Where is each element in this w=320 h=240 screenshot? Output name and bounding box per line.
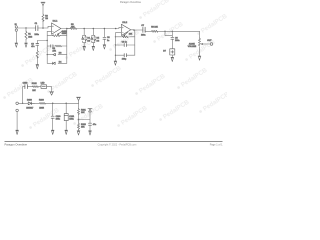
label IN [15,24,18,26]
label C103 [93,124,96,126]
title text [120,1,142,4]
svg-text:Page 1 of 1: Page 1 of 1 [210,143,223,146]
wire C5 tap [103,29,105,45]
node VB [78,119,80,121]
label R100 [39,100,45,110]
ground (dc jack) [16,130,19,134]
svg-text:500K: 500K [62,33,67,35]
label C6 [122,42,127,44]
label D101 [41,82,45,84]
node bias junction [42,27,44,29]
node fb diode top left [47,54,48,55]
wire C100 chain [52,103,54,130]
wire node to C1 [38,26,51,28]
ground (C103) [89,131,92,135]
node stage2 input junction [115,28,117,30]
dc jack J1 [16,102,19,105]
wire clip pair 1 [83,29,86,47]
resistor R8 [152,30,158,32]
label OUT [207,40,212,42]
label C7 [141,25,145,37]
op-amp U1B [121,24,130,35]
capacitor C3 [36,44,39,46]
svg-text:100R: 100R [39,107,44,109]
diode D6 [94,37,96,41]
resistor R102 [33,86,39,88]
svg-text:1M: 1M [45,18,48,20]
svg-text:Copyright © 2022 - PedalPCB.co: Copyright © 2022 - PedalPCB.com [98,143,137,146]
capacitor C7 [143,27,145,32]
label D4 [59,61,62,63]
potentiometer VOLUME body [199,38,201,46]
ground (C101) [65,130,68,134]
label P2 [129,33,133,35]
wire jack sleeve to ground [15,31,17,43]
diode D7 (box) [170,49,175,55]
resistor R1 [25,31,27,40]
label D3 [59,53,62,55]
output jack OUT1 [210,43,213,46]
capacitor C4 [51,45,53,48]
svg-text:VOLUME: VOLUME [188,46,197,48]
label R101 [81,109,87,114]
svg-text:Paragon Overdrive: Paragon Overdrive [120,1,142,4]
label R102 [32,83,38,92]
feedback mid branch wire [47,45,67,47]
label C9 [122,58,127,60]
svg-text:100n: 100n [141,35,145,37]
dc jack J1 sleeve [16,109,19,112]
label C102 [23,82,29,84]
label D1 D2 [87,38,90,43]
wire branch C [115,54,134,56]
node C8 tap [172,31,173,32]
svg-text:100n: 100n [69,118,73,120]
power net 9V (stage1 bias) [41,2,45,5]
potentiometer VOLUME wiper [201,43,206,44]
label D5 D6 [97,38,100,43]
wire R4 to ground [36,57,38,65]
label R8 [151,26,158,28]
wire stage2 inverting stub [115,33,121,61]
node output junction [66,28,68,30]
label D7 [163,50,166,52]
pin + mark [52,26,53,27]
node C100 tap [52,103,54,105]
svg-text:R8 10K: R8 10K [151,26,158,28]
wire feedback left vertical [46,32,48,64]
op-amp U1A [52,23,61,34]
label U1A [53,21,59,23]
capacitor C102 [25,85,28,89]
capacitor C8 [171,37,174,39]
label R1 value [28,34,33,39]
input jack sleeve [15,29,17,31]
label R2 [45,15,48,20]
ground (R1) [25,43,28,47]
capacitor C5 [103,37,106,39]
wire riser to top row [23,87,52,104]
label C8 [175,37,179,42]
pin - mark stage2 [122,32,123,34]
svg-text:LED: LED [41,82,45,84]
resistor R3 [56,45,62,47]
svg-text:1n: 1n [107,40,109,42]
node branch C left [115,55,116,56]
label R103 [81,124,87,129]
wire wiper to jack [206,43,210,45]
potentiometer VOLUME wire top [199,31,201,56]
label U1B [122,22,128,24]
label C5 [107,37,110,42]
diode D2 [85,37,87,41]
wire opamp2 output [131,30,200,32]
diode D3 [53,53,56,55]
title block line [5,140,223,142]
label C100 [56,116,62,121]
diode branch bottom wire [47,62,67,64]
resistor R103 [78,123,80,129]
wire stage2 fb right vertical [133,30,136,55]
label R3 [52,48,56,52]
wire divider top [78,103,80,108]
node C101 tap [65,103,67,105]
diode D1 [82,37,84,39]
input jack tip [15,26,17,28]
wire R101 to node [78,115,80,123]
label GAIN [62,30,67,35]
wire C3 to R4 [36,45,38,50]
label C3 [31,43,34,48]
svg-text:C6 1n: C6 1n [122,42,127,44]
wire VB branch [79,112,91,131]
diode D4 [53,62,56,64]
capacitor C103 [89,123,92,125]
svg-text:A100K: A100K [189,42,196,45]
wire connector to ground chain [37,41,47,44]
wire branch B [115,44,134,46]
power net 9V (top row end) [50,92,54,95]
wire R103 ground [78,129,80,131]
resistor R101 [78,108,80,114]
node clip pair 1 [83,28,85,30]
node clip pair 2 [93,28,95,30]
ground (fb chain) [36,65,39,69]
wire C8 chain [171,31,173,57]
label C1 [34,23,38,36]
footer center text [98,143,137,146]
wire R1 to ground [25,40,27,44]
wire opamp1 output [61,28,71,30]
wire pulldown stub [25,28,27,31]
ground (input jack) [15,43,18,47]
capacitor C100 [51,116,54,118]
wire input signal [18,27,36,29]
label VOLUME [188,42,197,48]
svg-text:100n: 100n [34,34,38,36]
diode D101 (box) [41,85,47,89]
capacitor C1 [36,26,38,31]
svg-text:Paragon Overdrive: Paragon Overdrive [5,143,28,147]
resistor R2 [42,14,44,22]
node C5 tap [104,28,106,30]
label D100 [26,100,34,110]
svg-text:100u: 100u [56,119,60,121]
wire clip pair 2 [92,29,95,47]
node pulldown tap [25,27,26,28]
node out stub [164,31,165,32]
ground (volume pot) [198,56,201,60]
wire feedback right vertical [66,29,68,64]
capacitor C6 [124,44,126,47]
svg-text:47u: 47u [31,46,34,48]
potentiometer P2 wiper [124,32,128,36]
node fb left [47,40,48,41]
capacitor C101 (box) [64,114,68,121]
resistor R100 [40,102,46,104]
potentiometer GAIN body [53,35,61,37]
wire bias junction vertical [42,6,44,28]
svg-text:47u: 47u [93,124,96,126]
node rail riser [22,103,23,104]
capacitor C9 [124,54,126,57]
resistor R4 [36,50,38,58]
wire interstage [67,27,122,28]
wire 9V rail [18,102,78,104]
label R5 [71,24,75,28]
footer left text [5,143,28,147]
wire out stub L [165,31,172,35]
diode D100 [28,102,34,105]
node branch A left [115,36,116,37]
svg-text:1N5817: 1N5817 [26,107,34,109]
ground (clip pair 2) [92,46,95,50]
wire jack sleeve ground [16,112,18,131]
node branch B left [115,44,116,45]
pin + mark stage2 [122,27,123,28]
wire inverting stub [47,31,51,33]
svg-text:100n: 100n [175,40,179,42]
watermark tiles [1,0,231,132]
ground (C5) [103,45,106,49]
footer right text [210,143,223,146]
ground (divider) [77,131,80,135]
diode D5 [91,37,93,39]
ground (stage2 minus) [114,61,117,65]
node stage2 output [133,29,135,31]
potentiometer P2 body [122,36,128,38]
potentiometer GAIN wiper [57,31,62,35]
power net 9V (divider top) [76,97,80,103]
diode branch top wire [47,54,67,56]
potentiometer GAIN branch wire [47,35,67,37]
ground (C8 chain) [171,57,174,61]
label C101 [69,116,75,121]
wire C101 chain [65,103,67,130]
ground (clip pair 1) [83,46,86,50]
pin - mark [52,31,53,33]
resistor R5 [70,28,76,30]
ground (C100) [51,130,54,134]
power net VB [88,108,92,112]
wire branch A [115,36,134,38]
